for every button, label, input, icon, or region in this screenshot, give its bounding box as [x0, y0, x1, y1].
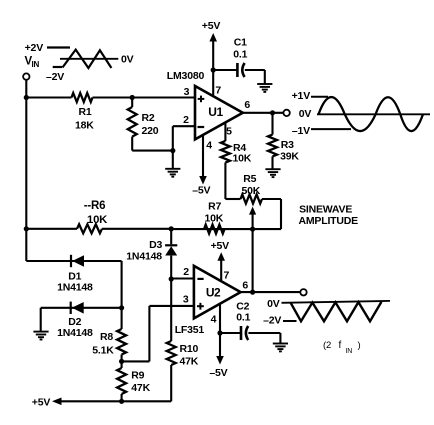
svg-text:U2: U2 [206, 285, 221, 299]
svg-text:+5V: +5V [211, 240, 230, 252]
svg-text:(2: (2 [323, 340, 331, 351]
svg-text:4: 4 [211, 313, 217, 325]
svg-text:D3: D3 [149, 239, 162, 251]
svg-text:--R6: --R6 [84, 200, 106, 212]
svg-text:R8: R8 [100, 331, 113, 343]
svg-text:1N4148: 1N4148 [57, 282, 93, 294]
svg-text:IN: IN [32, 60, 40, 69]
svg-text:f: f [339, 340, 342, 351]
svg-text:6: 6 [244, 99, 250, 111]
svg-text:50K: 50K [242, 185, 261, 197]
svg-text:39K: 39K [280, 151, 299, 163]
svg-text:3: 3 [184, 86, 190, 98]
svg-text:2: 2 [183, 266, 189, 278]
svg-text:6: 6 [242, 279, 248, 291]
svg-text:0V: 0V [121, 53, 134, 65]
svg-text:7: 7 [223, 269, 229, 281]
svg-text:0.1: 0.1 [233, 49, 247, 61]
svg-text:AMPLITUDE: AMPLITUDE [299, 215, 359, 227]
svg-text:R7: R7 [208, 201, 221, 213]
svg-text:220: 220 [142, 125, 159, 137]
svg-text:47K: 47K [131, 382, 150, 394]
svg-text:0V: 0V [299, 108, 312, 120]
svg-text:10K: 10K [233, 153, 252, 165]
svg-text:47K: 47K [180, 355, 199, 367]
svg-text:10K: 10K [87, 214, 108, 226]
svg-text:4: 4 [206, 140, 212, 152]
svg-text:+5V: +5V [202, 20, 221, 32]
svg-text:–1V: –1V [292, 125, 310, 137]
svg-text:C1: C1 [234, 36, 247, 48]
svg-text:–5V: –5V [209, 367, 227, 379]
svg-text:R10: R10 [180, 343, 199, 355]
svg-text:R1: R1 [79, 106, 92, 118]
svg-text:5.1K: 5.1K [92, 345, 114, 357]
svg-text:–5V: –5V [192, 185, 210, 197]
svg-text:): ) [358, 340, 361, 351]
svg-text:R2: R2 [142, 112, 155, 124]
svg-text:LF351: LF351 [175, 324, 205, 336]
svg-text:IN: IN [346, 348, 353, 355]
svg-text:R9: R9 [131, 369, 144, 381]
svg-text:10K: 10K [205, 213, 224, 225]
svg-text:R3: R3 [281, 139, 294, 151]
svg-text:3: 3 [183, 294, 189, 306]
svg-text:5: 5 [226, 126, 232, 138]
svg-text:LM3080: LM3080 [167, 70, 205, 82]
svg-text:R5: R5 [243, 173, 256, 185]
svg-text:0.1: 0.1 [236, 311, 250, 323]
svg-text:SINEWAVE: SINEWAVE [299, 204, 352, 216]
svg-text:–2V: –2V [263, 315, 281, 327]
svg-text:U1: U1 [208, 105, 223, 119]
svg-text:18K: 18K [75, 119, 94, 131]
svg-text:–2V: –2V [46, 71, 64, 83]
svg-text:0V: 0V [267, 298, 280, 310]
svg-text:+1V: +1V [292, 90, 311, 102]
svg-text:7: 7 [215, 85, 221, 97]
svg-text:1N4148: 1N4148 [57, 327, 93, 339]
svg-text:+2V: +2V [25, 42, 44, 54]
svg-text:2: 2 [183, 114, 189, 126]
svg-text:1N4148: 1N4148 [126, 250, 162, 262]
svg-text:+5V: +5V [32, 397, 51, 409]
